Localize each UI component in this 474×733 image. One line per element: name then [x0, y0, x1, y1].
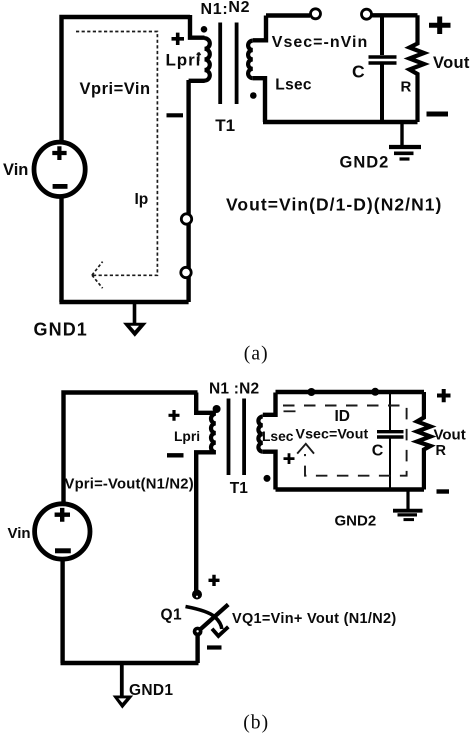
current loop ID dashed path (b): [283, 406, 407, 476]
label Vsec=Vout (b): [296, 427, 369, 443]
label VQ1=Vin+ Vout (N1/N2) (b): [232, 611, 397, 627]
wire: (a) left+top rail from Vin to transformer primary: [62, 17, 191, 144]
svg-text:Lsec: Lsec: [275, 77, 312, 94]
ground GND1 (a): [123, 302, 147, 337]
polarity + primary (a): [172, 33, 185, 45]
wire: (b) switch to bottom rail: [195, 634, 199, 663]
label Lpri (a): [166, 51, 202, 70]
wire: (a) left rail below source: [59, 195, 63, 302]
inductor Lpri (b) primary winding: [196, 393, 216, 593]
wire: (a) bottom rail: [59, 300, 188, 305]
svg-text:Vin: Vin: [3, 161, 28, 179]
label R (b): [436, 443, 447, 459]
label C (b): [372, 443, 384, 460]
svg-text:(a): (a): [244, 344, 269, 365]
svg-text:Vsec=Vout: Vsec=Vout: [296, 427, 369, 443]
svg-text:GND2: GND2: [335, 513, 377, 530]
label Lsec (b): [262, 429, 294, 444]
wire: (a) primary branch vertical (switch leg): [186, 80, 190, 302]
svg-text:Vpri=Vin: Vpri=Vin: [80, 80, 151, 98]
node: (a) open terminal right: [362, 9, 372, 19]
svg-text:(b): (b): [243, 713, 269, 733]
polarity - Vout (b): [437, 489, 450, 493]
label N1:N2 (a): [201, 0, 251, 18]
capacitor C (a): [369, 15, 397, 122]
polarity dot secondary (b): [264, 475, 271, 482]
current loop Ip dashed path (a): [76, 32, 157, 289]
label Vin (a): [3, 161, 28, 179]
svg-text:GND1: GND1: [34, 320, 88, 340]
svg-text:Vout: Vout: [434, 427, 466, 444]
label GND1 (b): [129, 682, 173, 699]
svg-text:Vpri=-Vout(N1/N2): Vpri=-Vout(N1/N2): [65, 477, 194, 493]
node: (a) switch terminal lower: [181, 267, 191, 277]
transformer core T1 (b): [227, 399, 246, 476]
inductor Lsec (b) secondary winding: [258, 393, 275, 490]
polarity - primary (a): [167, 113, 184, 117]
wire: (b) secondary bottom rail: [276, 487, 425, 491]
switch Q1 (b): [186, 590, 229, 637]
svg-text:Q1: Q1: [161, 607, 182, 624]
svg-text:GND2: GND2: [340, 154, 390, 172]
voltage source Vin (a): [34, 142, 85, 196]
polarity dot secondary (a): [250, 92, 257, 99]
svg-text:T1: T1: [215, 116, 235, 135]
label Vin (b): [8, 525, 31, 542]
inductor Lpri (a) primary winding: [189, 15, 210, 81]
svg-text:Lpri: Lpri: [174, 429, 200, 444]
svg-text:GND1: GND1: [129, 682, 173, 699]
inductor Lsec (a) secondary winding: [248, 16, 266, 123]
polarity + Vout (a): [429, 17, 451, 35]
svg-text:Lpri: Lpri: [166, 51, 202, 70]
svg-text:Vsec=-nVin: Vsec=-nVin: [272, 34, 368, 51]
polarity + switch (b): [209, 575, 220, 586]
junction dot top rail left (b): [307, 388, 315, 396]
svg-text:C: C: [372, 443, 384, 460]
ground GND2 (a): [389, 122, 421, 159]
label N1 :N2 (b): [209, 381, 259, 398]
svg-text:ID: ID: [335, 408, 351, 425]
svg-text:Vout=Vin(D/1-D)(N2/N1): Vout=Vin(D/1-D)(N2/N1): [226, 195, 442, 215]
label Lpri (b): [174, 429, 200, 444]
svg-text:Ip: Ip: [135, 191, 149, 208]
resistor R (b): [417, 392, 431, 490]
label Vsec=-nVin (a): [272, 34, 368, 51]
polarity dot primary (a): [201, 26, 208, 33]
svg-text:R: R: [401, 79, 412, 96]
svg-text:R: R: [436, 443, 447, 459]
svg-text:Vin: Vin: [8, 525, 31, 542]
label GND2 (a): [340, 154, 390, 172]
wire: (b) bottom rail: [61, 661, 199, 666]
label T1 (a): [215, 116, 235, 135]
voltage source Vin (b): [35, 504, 90, 559]
label Q1 (b): [161, 607, 182, 624]
polarity - Vout (a): [427, 112, 449, 117]
svg-text:Vout: Vout: [433, 54, 470, 72]
junction dot top rail right (b): [371, 388, 379, 396]
polarity + Vsec (b): [284, 453, 295, 464]
label Vpri=-Vout(N1/N2) (b): [65, 477, 194, 493]
label T1 (b): [230, 480, 248, 497]
label ID (b): [335, 408, 351, 425]
node: (a) switch terminal upper: [181, 214, 191, 224]
label GND1 (a): [34, 320, 88, 340]
equation Vout=Vin(D/1-D)(N2/N1) (a): [226, 195, 442, 215]
label Vout (a): [433, 54, 470, 72]
wire: (b) left rail below source: [60, 560, 64, 663]
resistor R (a): [410, 15, 425, 122]
wire: (b) secondary top rail: [276, 390, 425, 394]
polarity - primary (b): [167, 453, 184, 457]
label Ip (a): [135, 191, 149, 208]
ground GND1 (b): [113, 663, 134, 709]
polarity dot primary (b): [213, 405, 221, 413]
wire: (a) secondary top to open terminal: [266, 13, 310, 17]
capacitor C (b): [377, 393, 404, 490]
svg-text:Lsec: Lsec: [262, 429, 294, 444]
polarity + Vout (b): [437, 389, 451, 402]
label Vpri=Vin (a): [80, 80, 151, 98]
svg-text:C: C: [352, 62, 365, 82]
label Lsec (a): [275, 77, 312, 94]
svg-text:N1 :N2: N1 :N2: [209, 381, 259, 398]
transformer core T1 (a): [218, 23, 238, 105]
ground GND2 (b): [393, 490, 423, 520]
label R (a): [401, 79, 412, 96]
current tick arrow beside Lpri (a): [197, 53, 201, 62]
polarity - switch (b): [207, 645, 222, 649]
label GND2 (b): [335, 513, 377, 530]
label Vout (b): [434, 427, 466, 444]
caption (b): [243, 713, 269, 733]
label C (a): [352, 62, 365, 82]
node: (a) open terminal left: [311, 9, 321, 19]
wire: (a) secondary bottom rail: [263, 120, 418, 124]
wire: (b) top rail and left rail to Vin: [64, 393, 198, 503]
caption (a): [244, 344, 269, 365]
svg-text:VQ1=Vin+ Vout (N1/N2): VQ1=Vin+ Vout (N1/N2): [232, 611, 397, 627]
svg-text:T1: T1: [230, 480, 248, 497]
wire: (a) top rail right of terminal: [372, 13, 418, 17]
polarity + primary (b): [169, 410, 180, 421]
svg-text:N1:N2: N1:N2: [201, 0, 251, 18]
